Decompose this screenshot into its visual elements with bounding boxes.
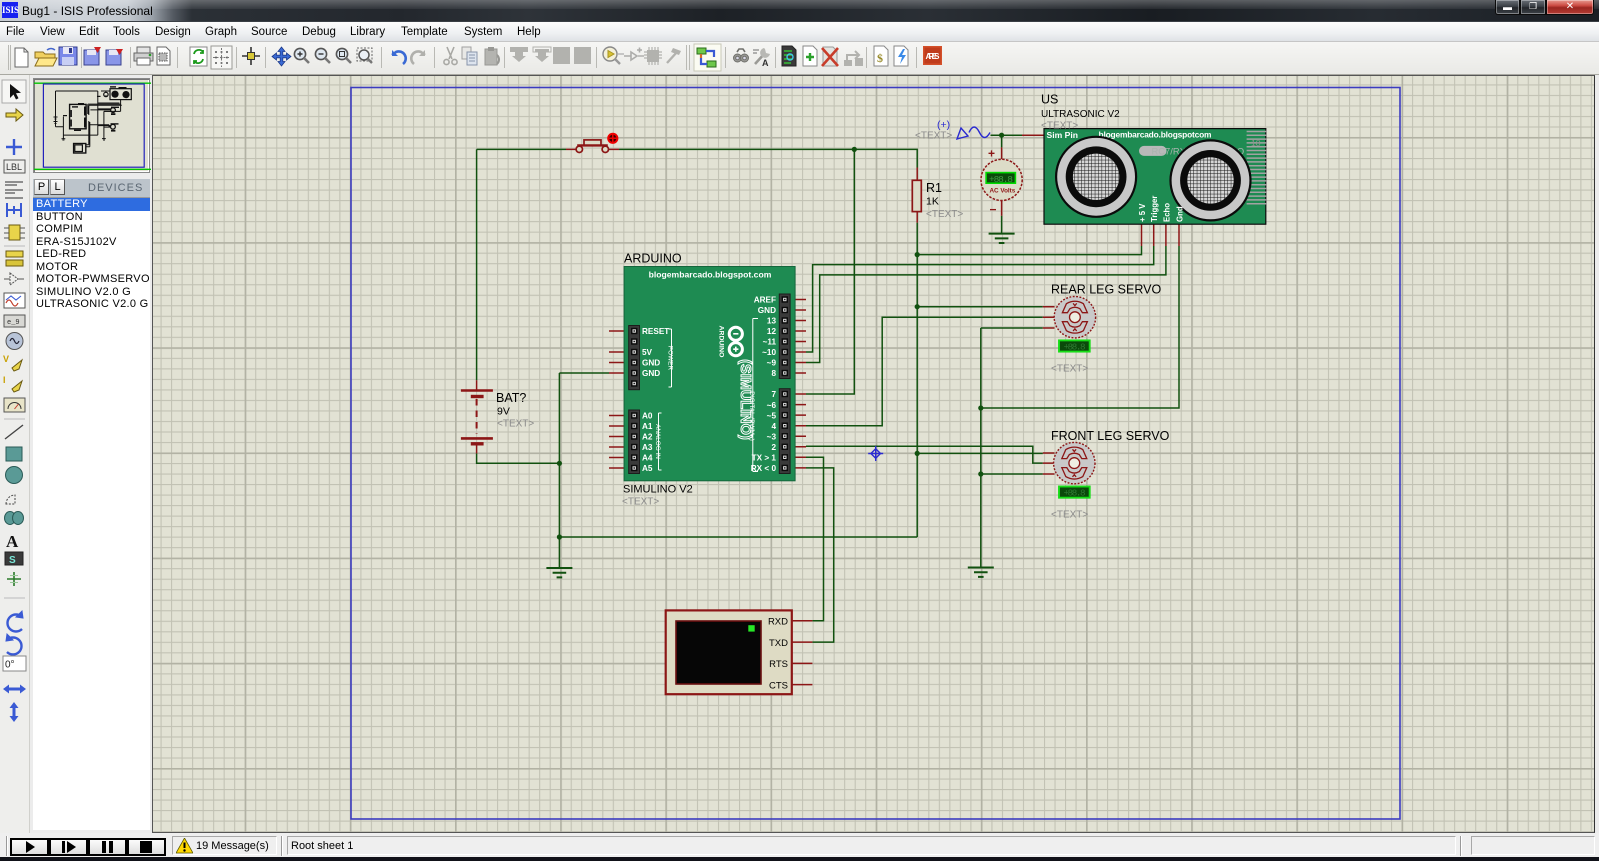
ARES logo (923, 46, 942, 65)
battery BAT? (461, 391, 493, 444)
junction node at sine source / voltmeter (999, 133, 1004, 138)
new (15, 48, 28, 67)
svg-text:+88.8: +88.8 (989, 174, 1013, 185)
US pin stubs +5V Trigger Echo Gnd (1142, 224, 1180, 246)
push button (576, 140, 608, 153)
wire US Gnd down (981, 246, 1179, 408)
US Sim Pin stub (1022, 134, 1044, 136)
svg-text:<TEXT>: <TEXT> (1051, 364, 1088, 375)
svg-text:blogembarcado.blogspotcom: blogembarcado.blogspotcom (1099, 130, 1212, 140)
netlist to ares (active) (694, 44, 721, 71)
wire button to R1 corner (619, 149, 917, 167)
svg-text:A: A (6, 532, 19, 551)
wire left ground column (558, 373, 560, 568)
svg-text:CTS: CTS (769, 680, 788, 691)
svg-text:4: 4 (771, 422, 776, 431)
svg-text:A5: A5 (642, 464, 653, 473)
zoom all (336, 48, 351, 63)
svg-text:AC Volts: AC Volts (990, 188, 1016, 195)
mini battery (54, 117, 58, 124)
svg-text:<TEXT>: <TEXT> (926, 209, 963, 220)
hammer (disabled) (667, 48, 681, 63)
svg-text:<TEXT>: <TEXT> (497, 419, 534, 430)
pin add (disabled) (624, 48, 644, 61)
front leg servo (1051, 429, 1170, 521)
svg-text:ARDUINO: ARDUINO (718, 326, 725, 358)
svg-text:<TEXT>: <TEXT> (1041, 121, 1078, 132)
svg-text:AREF: AREF (754, 296, 776, 305)
arduino pin stubs A0-A5 (609, 416, 629, 469)
svg-text:blogembarcado.blogspot.com: blogembarcado.blogspot.com (649, 270, 772, 280)
svg-text:BAT?: BAT? (496, 391, 526, 405)
mini arduino (70, 104, 87, 128)
svg-text:RTS: RTS (769, 659, 788, 670)
block copy (disabled) (510, 47, 528, 62)
svg-text:RXD: RXD (768, 617, 788, 628)
block delete (disabled) (574, 47, 591, 64)
svg-text:GND: GND (642, 369, 660, 378)
mini label blobs (63, 86, 119, 131)
svg-text:R1: R1 (926, 181, 942, 195)
ultrasonic sensor US (1041, 93, 1266, 225)
wire TX to COMPIM RXD (806, 457, 824, 621)
wire rear servo bottom (981, 327, 1043, 329)
undo (392, 50, 406, 64)
arduino right digital header bottom (748, 319, 790, 474)
wire rear servo top (917, 306, 1043, 308)
copy (disabled) (462, 47, 477, 65)
sheet border (351, 88, 1400, 820)
zoom area (357, 48, 372, 63)
junction node at R1 column / rear servo top (915, 304, 920, 309)
arduino pin stubs RESET 5V GND GND (609, 331, 629, 373)
arduino pin stubs 7 ~6 ~5 4 ~3 2 TX1 RX0 (790, 394, 806, 468)
wire rear servo middle from pin 4 (806, 317, 1043, 426)
AC voltmeter (981, 147, 1022, 217)
svg-text:<TEXT>: <TEXT> (915, 131, 952, 142)
junction node right ground column / front servo bottom (978, 471, 983, 476)
svg-text:Gnd: Gnd (1176, 206, 1185, 222)
svg-text:I: I (3, 375, 6, 385)
wire top horizontal to button (477, 148, 566, 150)
design explorer (782, 46, 796, 66)
svg-text:+88.8: +88.8 (1064, 488, 1086, 499)
zoom to selection (603, 47, 624, 64)
wire R1 bottom column (916, 223, 918, 537)
wire front servo top (917, 452, 1043, 454)
mini grounds (62, 96, 108, 140)
mini ultrasonic (110, 89, 131, 100)
wire +5V (917, 246, 1141, 255)
rear servo pin stubs (1043, 307, 1055, 328)
arduino left analog header (629, 410, 662, 474)
svg-text:A0: A0 (642, 412, 653, 421)
arduino pin stubs AREF GND 13 12 ~11 ~10 ~9 8 (790, 300, 806, 374)
junction node at R1 column / front servo top (915, 451, 920, 456)
resistor R1 pin stubs (916, 168, 918, 223)
svg-text:+: + (988, 147, 995, 161)
junction node US Gnd / right ground column (978, 405, 983, 410)
bom (874, 46, 888, 66)
voltmeter pin stubs (1001, 147, 1003, 215)
svg-text:A: A (762, 58, 769, 68)
origin (242, 47, 260, 65)
svg-text:LBL: LBL (6, 162, 22, 172)
US pin comb right (1247, 132, 1267, 204)
svg-text:0°: 0° (5, 660, 15, 671)
paste (disabled) (485, 47, 499, 65)
COMPIM serial port model (666, 610, 792, 694)
svg-text:GND: GND (642, 359, 660, 368)
battery labels (496, 391, 534, 430)
wire Trigger to pin ~10 (806, 246, 1154, 352)
US right transducer (1171, 140, 1251, 220)
svg-text:TX > 1: TX > 1 (752, 454, 777, 463)
export (106, 49, 123, 65)
print (134, 47, 153, 65)
cut (disabled) (444, 47, 457, 65)
wire voltmeter bottom to ground (1001, 216, 1003, 234)
wire battery bottom corner (477, 453, 560, 463)
save (59, 47, 77, 65)
svg-text:~5: ~5 (767, 411, 777, 420)
find (734, 49, 749, 62)
resistor R1 (912, 180, 963, 220)
arduino left power header (629, 326, 674, 390)
svg-text:ARDUINO: ARDUINO (624, 252, 682, 266)
block move (disabled) (533, 47, 551, 62)
wire bottom horizontal to R1 column (559, 536, 917, 538)
svg-text:12: 12 (767, 327, 777, 336)
import (84, 47, 101, 65)
svg-text:1K: 1K (926, 196, 939, 208)
rear leg servo (1051, 283, 1162, 375)
zoom out (315, 48, 330, 63)
svg-text:SIMULINO V2: SIMULINO V2 (623, 484, 693, 496)
arduino right digital header top (754, 294, 790, 379)
wire RX to COMPIM TXD (806, 468, 834, 642)
svg-text:(SIMULINO): (SIMULINO) (737, 359, 753, 440)
svg-text:Echo: Echo (1162, 203, 1171, 222)
wire front servo middle from pin 2 (806, 446, 1043, 463)
svg-text:e_9: e_9 (7, 319, 20, 327)
svg-text:GND: GND (758, 306, 776, 315)
svg-text:2: 2 (771, 443, 776, 452)
COMPIM pin stubs RXD TXD RTS CTS (792, 621, 813, 685)
arduino logo (718, 326, 754, 440)
property tool (753, 48, 770, 68)
wire ground column right (980, 328, 982, 568)
mini servos (111, 108, 116, 113)
svg-text:A4: A4 (642, 454, 653, 463)
svg-text:18: 18 (1251, 138, 1261, 148)
button pin stubs (566, 148, 619, 150)
new sheet (803, 46, 817, 66)
junction node at R1 column / +5V wire (915, 252, 920, 257)
mini compim (74, 144, 86, 154)
chip (disabled) (644, 47, 662, 65)
svg-text:8: 8 (771, 369, 776, 378)
svg-text:+88.8: +88.8 (1064, 342, 1086, 353)
svg-text:~10: ~10 (762, 348, 776, 357)
ground (left) (546, 568, 572, 577)
svg-text:RESET: RESET (642, 327, 669, 336)
svg-text:<TEXT>: <TEXT> (622, 497, 659, 508)
svg-text:~11: ~11 (763, 338, 777, 347)
pan (272, 47, 291, 66)
battery BAT? pin stubs (476, 380, 478, 453)
svg-text:A3: A3 (642, 443, 653, 452)
junction node left ground column / bottom wire (557, 534, 562, 539)
svg-text:7: 7 (771, 390, 776, 399)
wire tap to pin 7 (806, 149, 854, 394)
svg-text:13: 13 (767, 317, 777, 326)
goto sheet (disabled) (845, 51, 862, 65)
refresh (190, 47, 207, 66)
remove sheet (822, 47, 838, 66)
wire voltmeter top (1001, 135, 1003, 147)
zoom in (294, 48, 309, 63)
svg-text:ANALOG IN: ANALOG IN (654, 424, 661, 459)
wire battery top vertical (477, 135, 1179, 642)
wire sine to voltmeter junction (991, 134, 1023, 136)
grid background (153, 76, 1594, 832)
svg-text:9V: 9V (497, 406, 510, 418)
junction node battery / ground column (557, 461, 562, 466)
print mark (157, 47, 170, 65)
front servo pin stubs (1043, 453, 1055, 474)
US left transducer (1056, 137, 1136, 217)
svg-text:TXD: TXD (769, 638, 788, 649)
svg-text:A2: A2 (642, 433, 653, 442)
svg-text:POWER: POWER (666, 346, 673, 371)
open (35, 49, 57, 67)
sine generator (+) (915, 119, 990, 142)
grid toggle (pressed) (211, 46, 232, 69)
svg-text:A1: A1 (642, 422, 653, 431)
arduino U1 SIMULINO V2 board (622, 252, 795, 508)
blue origin crosshair (868, 446, 883, 461)
wire Echo to pin ~9 (806, 246, 1166, 363)
button red actuator marker (607, 133, 618, 144)
svg-text:<TEXT>: <TEXT> (1051, 510, 1088, 521)
wire front servo bottom (981, 473, 1043, 475)
ground (right) (968, 568, 994, 577)
svg-text:REAR LEG SERVO: REAR LEG SERVO (1051, 283, 1162, 297)
mini voltmeter (104, 92, 108, 96)
svg-text:ARES: ARES (926, 52, 941, 61)
svg-text:~9: ~9 (767, 359, 777, 368)
US pin labels vertical (1138, 196, 1185, 222)
svg-text:~3: ~3 (767, 432, 777, 441)
svg-text:S: S (9, 555, 16, 566)
svg-text:ULTRASONIC V2: ULTRASONIC V2 (1041, 109, 1120, 120)
block rotate (disabled) (553, 47, 570, 64)
electrical check (894, 46, 908, 66)
svg-text:V: V (3, 354, 9, 364)
svg-text:(+): (+) (937, 119, 950, 131)
svg-text:US: US (1041, 93, 1058, 107)
svg-text:5V: 5V (642, 348, 653, 357)
svg-text:+ 5 V: + 5 V (1138, 203, 1147, 222)
svg-text:−: − (990, 203, 997, 217)
svg-text:~6: ~6 (767, 401, 777, 410)
redo (disabled) (411, 50, 425, 64)
ground (voltmeter) (989, 234, 1015, 243)
wire GND pin to left column (559, 372, 609, 374)
svg-text:FRONT LEG SERVO: FRONT LEG SERVO (1051, 429, 1170, 443)
svg-text:Trigger: Trigger (1150, 196, 1159, 222)
svg-text:$: $ (877, 51, 883, 65)
junction node at button net / pin 7 tap (852, 147, 857, 152)
